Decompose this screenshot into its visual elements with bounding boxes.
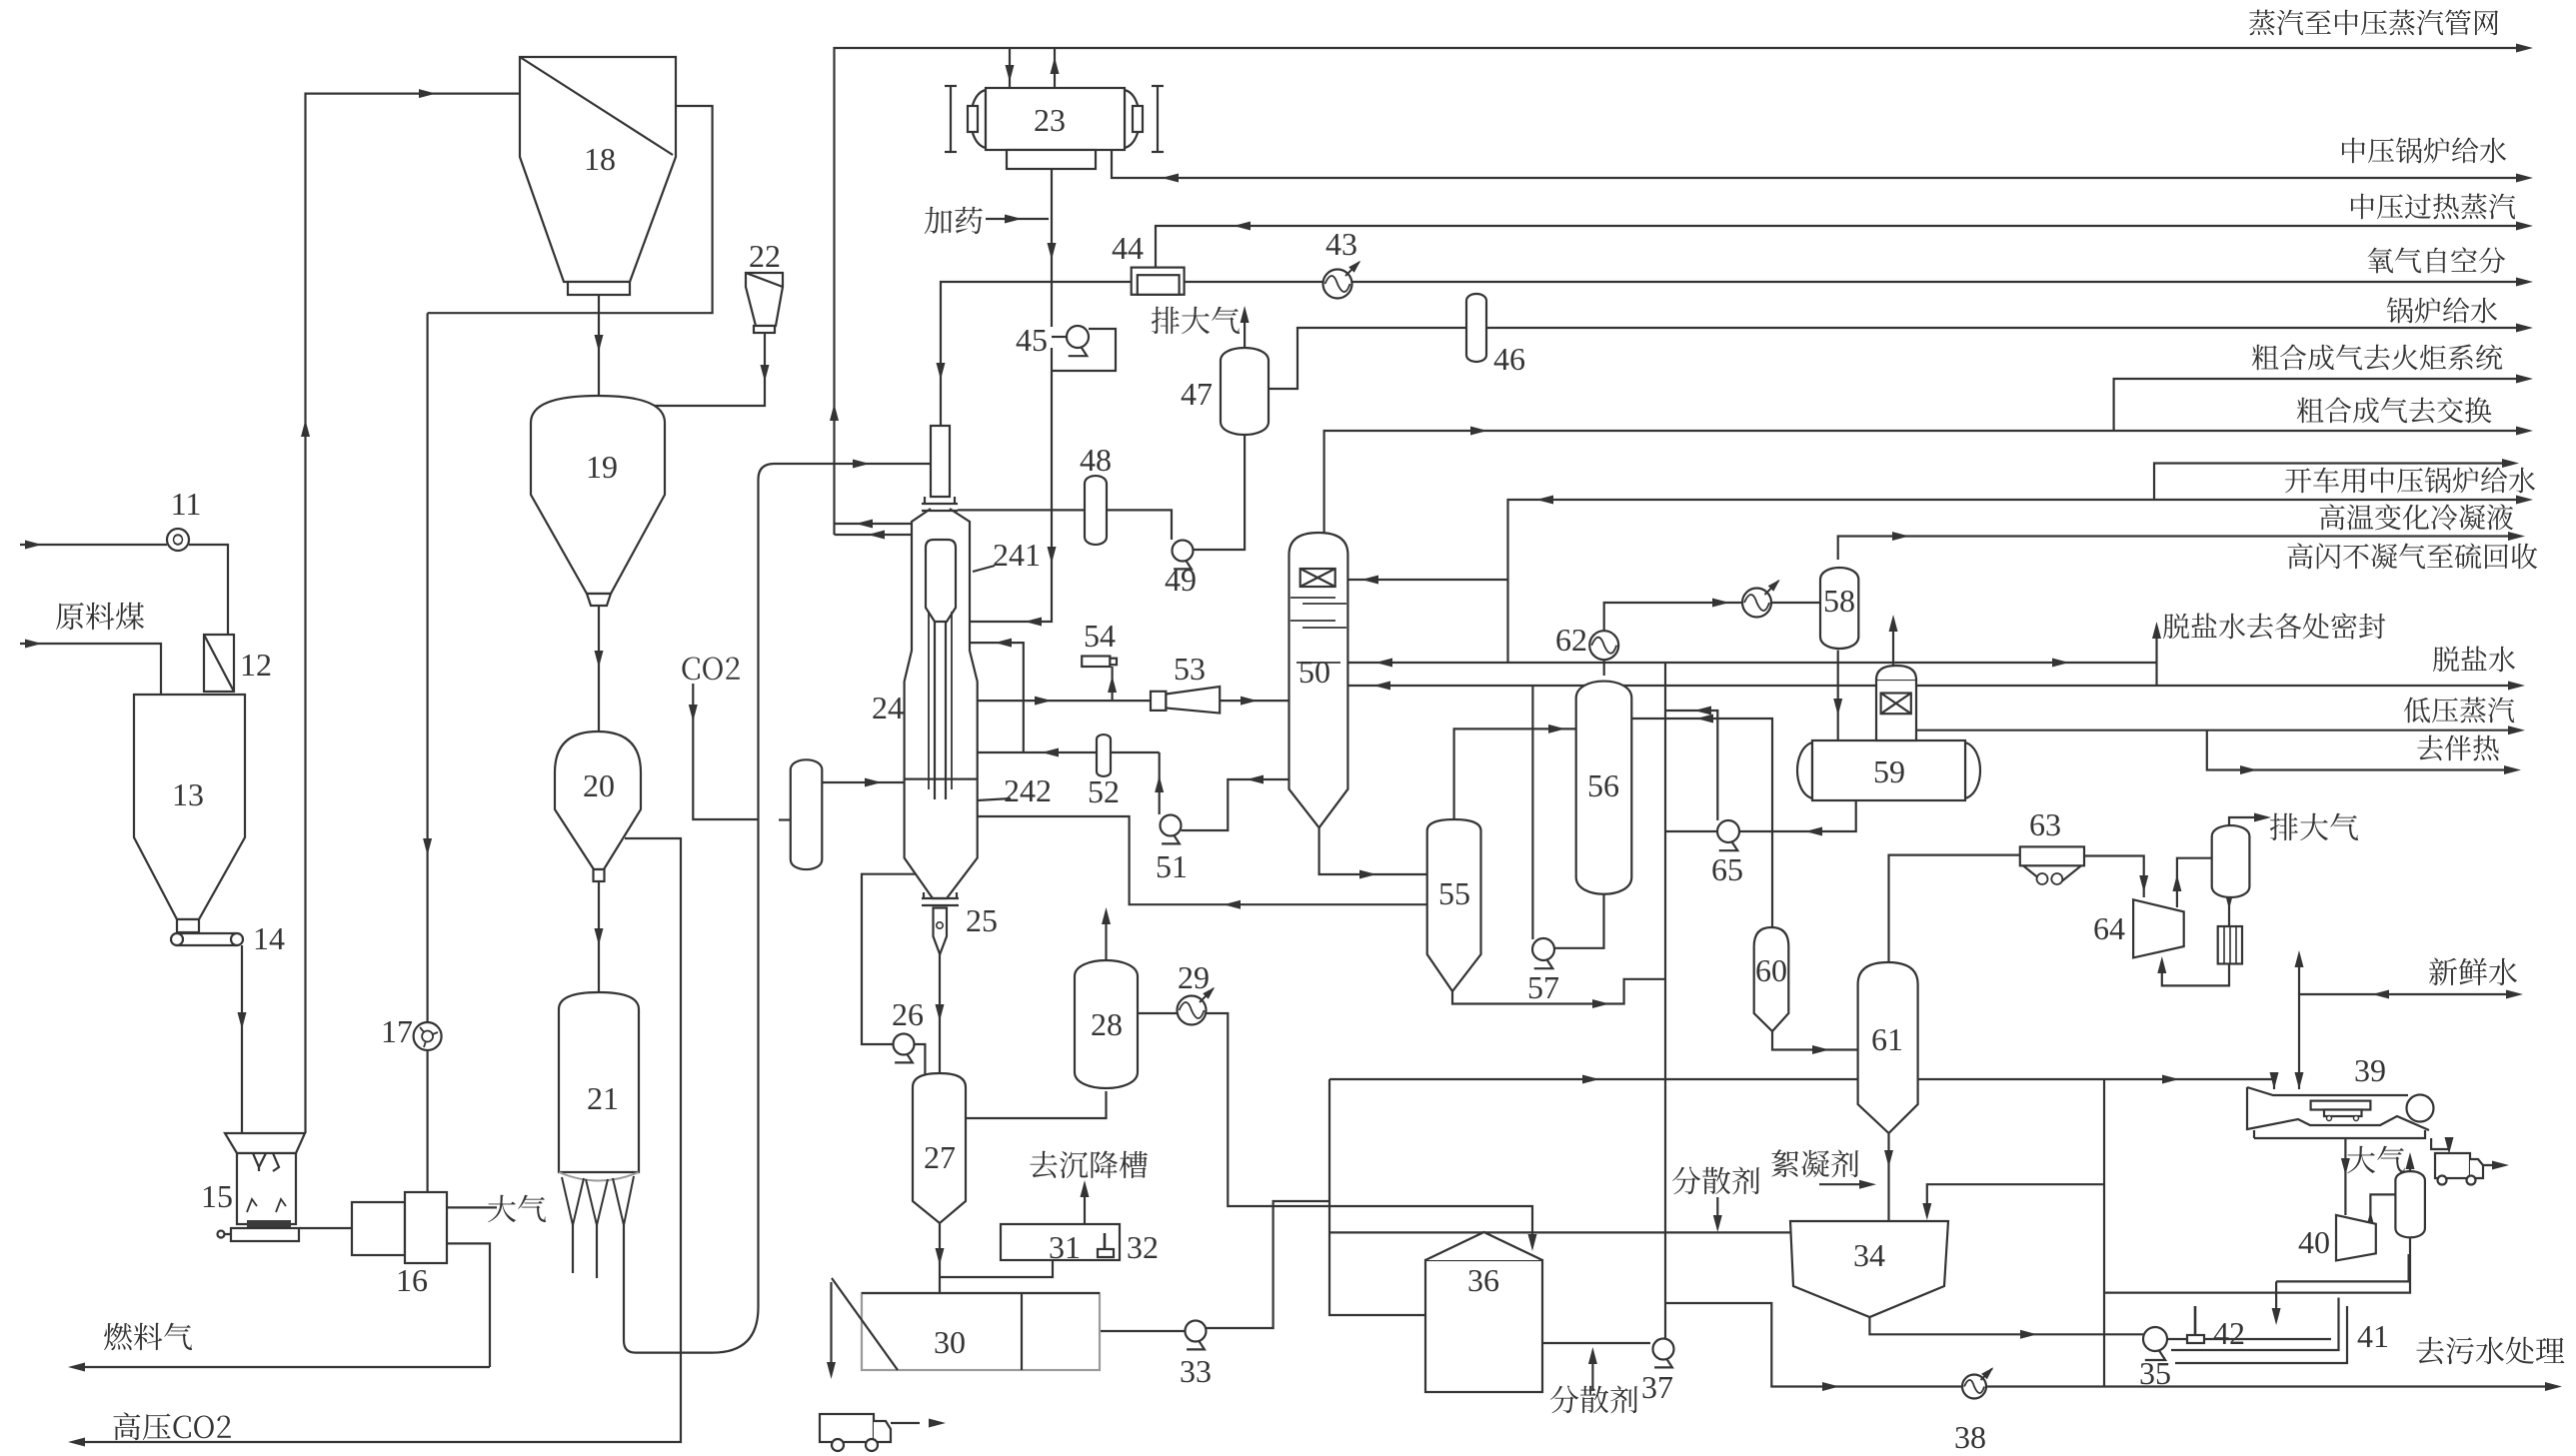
pump 33 bbox=[1187, 1336, 1205, 1350]
feeder 63 bbox=[2020, 846, 2084, 865]
svg-text:58: 58 bbox=[1823, 583, 1855, 619]
svg-text:38: 38 bbox=[1954, 1419, 1986, 1455]
wire startup MP BFW branch y=463 bbox=[2154, 464, 2511, 501]
svg-text:29: 29 bbox=[1178, 959, 1210, 995]
wire feeder 63 to compressor 64 bbox=[2084, 856, 2144, 898]
wire recycle gas riser x=305 from lockhopper 15 up to separator 18 bbox=[306, 94, 521, 1133]
wire vessel 55 top to column 56 bbox=[1454, 728, 1576, 819]
venturi scrubber 53 bbox=[1151, 692, 1166, 711]
wire to settling tank arrow from box 31 bbox=[1084, 1187, 1086, 1224]
cyclone 12 bbox=[204, 635, 234, 692]
svg-text:43: 43 bbox=[1325, 226, 1357, 262]
heater 62 bbox=[1589, 631, 1618, 660]
label 锅炉给水 bbox=[2387, 297, 2413, 323]
svg-text:17: 17 bbox=[381, 1013, 413, 1049]
pump 26 bbox=[895, 1049, 913, 1063]
label 絮凝剂 bbox=[1771, 1149, 1798, 1177]
svg-text:19: 19 bbox=[586, 449, 618, 485]
wire ejector 40 to vent capsule bbox=[2370, 1194, 2395, 1219]
hopper 20 bbox=[555, 731, 641, 869]
wire vessel 28 vent up to blackwater line bbox=[1105, 913, 1107, 960]
wire hopper 19 to hopper 20 bbox=[598, 606, 600, 731]
wire hopper 20 to filter 21 bbox=[598, 881, 600, 992]
label 新鲜水 bbox=[2429, 958, 2457, 986]
label 中压过热蒸汽 bbox=[2351, 194, 2374, 220]
label 蒸汽至中压蒸汽管网 bbox=[2249, 10, 2275, 36]
label 氧气自空分 bbox=[2368, 248, 2394, 274]
wire HP flash offgas to sulfur recovery y=536 from drum 58 bbox=[1838, 537, 2517, 561]
wire to heat-tracing line y=770 branch bbox=[2207, 730, 2513, 770]
wire grey water riser x=1666 from pump 37 bbox=[1664, 663, 1666, 1339]
wire blackwater flash line y=817 from gasifier to vessel 55 bbox=[978, 816, 1427, 904]
slag crusher 25 bbox=[922, 897, 959, 899]
wire gasifier slag drain to pump 26 bbox=[862, 874, 916, 1044]
wire riser from drum 23 to steam header bbox=[1054, 48, 1056, 88]
label 原料煤 bbox=[56, 603, 84, 630]
deaerator drum 59 bbox=[1797, 742, 1980, 798]
wire 18 right offgas to valve line down to filter 21 area bbox=[428, 106, 713, 313]
wire trough 41 to waste pipes bbox=[2171, 1298, 2339, 1351]
svg-text:56: 56 bbox=[1587, 767, 1619, 803]
svg-text:14: 14 bbox=[253, 920, 285, 956]
svg-text:52: 52 bbox=[1088, 773, 1120, 809]
silencer by 64 bbox=[2218, 926, 2242, 964]
wire pump 11 to cyclone 12 bbox=[189, 545, 228, 635]
wire vent capsule to atmosphere arrow bbox=[2409, 1159, 2411, 1179]
column 61 bbox=[1858, 962, 1918, 1133]
wire branch x=2105 down to waste water line bbox=[2103, 1079, 2105, 1387]
label 燃料气 bbox=[104, 1323, 132, 1350]
label 脱盐水 bbox=[2433, 647, 2459, 673]
svg-text:62: 62 bbox=[1555, 622, 1587, 658]
wire demin water drop to pump 57 bbox=[1531, 686, 1533, 939]
wire clarified water into 34 from right bbox=[1927, 1184, 2104, 1215]
svg-text:22: 22 bbox=[749, 238, 781, 274]
label 大气 bbox=[2347, 1146, 2375, 1173]
wire dispersant upper arrow bbox=[1716, 1197, 1718, 1227]
wire demin water to seals riser x=2157 bbox=[2155, 629, 2157, 686]
pump 65 bbox=[1719, 836, 1738, 850]
wire MP boiler feed water line y=178 into drum 23 bbox=[1112, 150, 2525, 178]
wire vessel 60 bottom to column 61 bbox=[1772, 1031, 1858, 1050]
compressor 64 bbox=[2133, 899, 2184, 957]
gasifier 24 neck bbox=[931, 426, 950, 497]
ejector 40 bbox=[2336, 1215, 2376, 1261]
pump 37 bbox=[1654, 1354, 1672, 1368]
svg-text:61: 61 bbox=[1871, 1021, 1903, 1057]
svg-text:41: 41 bbox=[2357, 1318, 2389, 1354]
svg-text:63: 63 bbox=[2029, 806, 2061, 842]
svg-text:36: 36 bbox=[1467, 1262, 1499, 1298]
wire grey water down leg to tank 36 bbox=[1329, 1079, 1425, 1315]
wire raw coal line into bin 13 bbox=[20, 644, 161, 695]
label 去沉降槽 bbox=[1030, 1151, 1057, 1178]
wire vessel 28 bottom to vessel 27 bbox=[966, 1091, 1107, 1118]
wire settler 30 overflow drop to truck bbox=[830, 1282, 832, 1371]
svg-text:30: 30 bbox=[934, 1324, 966, 1360]
svg-text:60: 60 bbox=[1755, 952, 1787, 988]
gasifier 24 inner chamber 241 bbox=[926, 540, 956, 622]
svg-text:49: 49 bbox=[1165, 562, 1197, 598]
heater by 58 bbox=[1742, 589, 1771, 618]
svg-text:26: 26 bbox=[892, 996, 924, 1032]
truck 2 bbox=[2435, 1153, 2470, 1178]
label 排大气 bbox=[1152, 307, 1180, 334]
tank 31 32 bbox=[1001, 1224, 1120, 1260]
wire 16 to atmosphere stub bbox=[448, 1206, 497, 1208]
svg-text:51: 51 bbox=[1156, 848, 1188, 884]
oxygen preheater 44 bbox=[1132, 268, 1185, 295]
wire separator vent to atmosphere right bbox=[2229, 817, 2263, 825]
wire vessel 47 vent to atmosphere bbox=[1244, 313, 1246, 349]
wire dosing line jiayao bbox=[986, 218, 1049, 220]
wire drum 59 bottom to pump 65 bbox=[1739, 800, 1856, 831]
wire LP steam line y=730 bbox=[1916, 729, 2517, 731]
dosing pump 45 bbox=[1069, 342, 1088, 356]
wire drum 23 downcomer x=1052 with dosing tee bbox=[1051, 169, 1053, 327]
wire quench water return into gasifier y=643 bbox=[970, 643, 1024, 752]
label 粗合成气去交换 bbox=[2297, 398, 2324, 424]
leader line 242 bbox=[978, 798, 1011, 800]
vacuum belt filter 39 bbox=[2247, 1087, 2429, 1138]
label 加药 bbox=[925, 207, 953, 234]
vent capsule 40 bbox=[2395, 1171, 2425, 1237]
wire 16 right rect down to fuel gas line bbox=[448, 1243, 490, 1367]
wire vessel 55 bottom line to riser bbox=[1452, 979, 1665, 1004]
wire filter 39 bottom to ejector 40 bbox=[2344, 1138, 2346, 1215]
settler 30 bbox=[862, 1293, 1100, 1370]
label 去伴热 bbox=[2417, 735, 2443, 761]
svg-text:27: 27 bbox=[924, 1139, 956, 1175]
svg-text:20: 20 bbox=[583, 767, 615, 803]
pump 35 bbox=[2145, 1344, 2165, 1360]
wire column 56 bottom to pump 57 bbox=[1554, 894, 1604, 948]
svg-text:11: 11 bbox=[171, 486, 202, 522]
column 56 bbox=[1576, 682, 1632, 894]
label 去污水处理 bbox=[2416, 1337, 2443, 1364]
wire recycled water long line y=1080 to vacuum filter 39 bbox=[1329, 1079, 2274, 1089]
svg-text:46: 46 bbox=[1493, 341, 1525, 377]
label 大气 bbox=[488, 1195, 516, 1222]
svg-text:44: 44 bbox=[1112, 230, 1144, 266]
separator 18 bbox=[520, 57, 676, 282]
svg-text:15: 15 bbox=[201, 1178, 233, 1214]
wire tank 36 outlet to pump 37 with dispersant tee bbox=[1542, 1342, 1650, 1344]
wire deaerator column vent bbox=[1892, 622, 1894, 666]
wire pump 45 bypass box bbox=[1052, 329, 1116, 371]
wire bin 13 outlet to conveyor 14 to lockhopper 15 bbox=[241, 945, 243, 1133]
wire boiler feed water line y=328 through 46 from vessel 47 bbox=[1269, 328, 2525, 389]
svg-text:35: 35 bbox=[2139, 1355, 2171, 1391]
wire 15 to 16 bbox=[299, 1227, 352, 1229]
wire flocculant dosing arrow bbox=[1819, 1183, 1868, 1185]
label 开车用中压锅炉给水 bbox=[2285, 468, 2311, 493]
svg-text:12: 12 bbox=[240, 647, 272, 683]
wire filter 39 right discharge to truck bbox=[2431, 1138, 2449, 1149]
coal bin 13 bbox=[134, 695, 245, 919]
svg-text:65: 65 bbox=[1711, 851, 1743, 887]
feed capsule left of gasifier bbox=[791, 759, 823, 869]
deaerator column on 59 bbox=[1876, 680, 1916, 740]
svg-text:57: 57 bbox=[1527, 969, 1559, 1005]
wire line y=1233 into thickener 34 bbox=[1329, 1231, 1790, 1233]
filter 46 bbox=[1466, 294, 1486, 362]
wire drop into drum 23 at x=1010 bbox=[1009, 48, 1011, 88]
agitator 42 bbox=[2194, 1306, 2197, 1335]
svg-text:37: 37 bbox=[1641, 1369, 1673, 1405]
pump 51 bbox=[1162, 830, 1180, 844]
wire pump 49 discharge to vessel 47 bbox=[1194, 435, 1246, 550]
label 高温变化冷凝液 bbox=[2320, 504, 2345, 530]
wire vent line x=427 down through blower 17 to 16 bbox=[427, 313, 429, 1025]
wire slag lockhopper 25 to vessel 27 bbox=[939, 954, 941, 1075]
wire column 61 bottoms to thickener 34 bbox=[1887, 1133, 1889, 1221]
wire HT shift condensate line y=500 into column 50 bbox=[1508, 500, 2526, 663]
wire heater circuit 62 to 58 bbox=[1604, 603, 1742, 631]
wire blackwater line y=753 through filter 52 from pump 51 bbox=[978, 751, 1160, 753]
steam drum 23 bbox=[971, 90, 1140, 148]
svg-text:40: 40 bbox=[2298, 1224, 2330, 1260]
wire coal feed gas line into pump 11 bbox=[20, 544, 167, 546]
svg-text:18: 18 bbox=[584, 141, 616, 177]
wire nozzle into 50 upper at y=580 bbox=[1347, 579, 1507, 581]
wire HP CO2 line y=1443 riser to vessel 20 bbox=[75, 838, 681, 1442]
svg-text:242: 242 bbox=[1004, 772, 1052, 808]
svg-text:32: 32 bbox=[1127, 1229, 1159, 1265]
wire steam-to-MP-steam-grid main header y=48 bbox=[835, 48, 2526, 535]
wire separator bottom through silencer back to compressor 64 bbox=[2228, 889, 2230, 926]
blower 17 bbox=[414, 1022, 442, 1050]
wire oxygen from ASU line y=282 through 44 and 43 to gasifier neck bbox=[941, 282, 2525, 426]
label 分散剂 bbox=[1672, 1166, 1700, 1194]
wire pump 26 discharge into vessel 27 bbox=[915, 1044, 926, 1079]
wire tank 31 drain into 30 bbox=[940, 1260, 1053, 1277]
svg-text:16: 16 bbox=[396, 1262, 428, 1298]
svg-text:47: 47 bbox=[1181, 376, 1213, 412]
wire fresh water line y=995 bbox=[2299, 994, 2517, 1089]
leader line 241 bbox=[973, 566, 995, 572]
wire filter 21 discharge legs bbox=[572, 1225, 574, 1273]
wire drum 58 bottom into deaerator 59 bbox=[1837, 651, 1839, 741]
svg-text:64: 64 bbox=[2093, 910, 2125, 946]
wire fuel gas line y=1368 bbox=[75, 1366, 490, 1368]
wire pump 51 suction from column 50 bottom bbox=[1182, 779, 1289, 830]
label 排大气 bbox=[2270, 813, 2298, 840]
wire cyclone 22 outlet down to hopper 19 bbox=[638, 333, 765, 406]
gasifier 24 outer shell bbox=[905, 509, 978, 898]
wire compressor 64 discharge to separator bbox=[2177, 858, 2212, 907]
pump 57 bbox=[1534, 954, 1553, 968]
vessel 27 bbox=[913, 1073, 966, 1223]
wire separator 18 bottom to hopper 19 bbox=[598, 295, 600, 398]
svg-text:13: 13 bbox=[172, 776, 204, 812]
wire thickener 34 underflow to pump 35 to trough 41 bbox=[1869, 1317, 2143, 1334]
svg-text:53: 53 bbox=[1174, 651, 1206, 687]
svg-text:48: 48 bbox=[1080, 442, 1112, 478]
cooler 38 bbox=[1962, 1375, 1986, 1399]
label 低压蒸汽 bbox=[2404, 698, 2430, 724]
label 高压CO2 bbox=[113, 1412, 140, 1440]
wire settler 30 to pump 33 and up to grey water header bbox=[1100, 1330, 1186, 1332]
wire column 56 overhead to vessel 60 bbox=[1631, 719, 1772, 927]
svg-text:241: 241 bbox=[993, 537, 1041, 573]
gasifier 24 quench water level 242 bbox=[905, 777, 978, 779]
cyclone 22 bbox=[746, 273, 783, 326]
svg-text:25: 25 bbox=[966, 902, 998, 938]
label 脱盐水去各处密封 bbox=[2163, 614, 2189, 640]
oxygen heater 43 bbox=[1323, 270, 1352, 299]
cooler 29 bbox=[1178, 996, 1207, 1025]
nozzle 54 bbox=[1082, 657, 1110, 668]
label 粗合成气去火炬系统 bbox=[2252, 345, 2279, 371]
vessel 55 bbox=[1427, 819, 1481, 991]
wire raw syngas to shift line y=431 from column 50 top bbox=[1324, 431, 2525, 533]
svg-text:54: 54 bbox=[1084, 618, 1116, 654]
label 中压锅炉给水 bbox=[2342, 138, 2365, 164]
wire truck2 away arrow bbox=[2483, 1164, 2501, 1166]
vessel 60 bbox=[1754, 927, 1789, 1031]
wire MP superheated steam line y=226 to unit 44 bbox=[1156, 226, 2525, 268]
svg-text:33: 33 bbox=[1180, 1353, 1212, 1389]
flash vessel 47 bbox=[1221, 348, 1269, 435]
bag filter 21 bbox=[559, 992, 639, 1172]
wire demin water line y=686 into column 50 bbox=[1347, 685, 2517, 687]
svg-text:24: 24 bbox=[872, 690, 904, 726]
svg-text:34: 34 bbox=[1853, 1237, 1885, 1273]
svg-text:45: 45 bbox=[1016, 322, 1048, 358]
separator capsule by 64 bbox=[2212, 825, 2250, 897]
svg-text:21: 21 bbox=[587, 1080, 619, 1116]
hopper 19 bbox=[531, 396, 665, 594]
wire nozzle 54 standpipe bbox=[1111, 667, 1113, 701]
label CO2 bbox=[682, 657, 700, 680]
wire flange line y=510 from gasifier neck through filter 48 to pump 49 bbox=[958, 509, 1085, 511]
wire raw syngas to flare system branch y=379 bbox=[2114, 379, 2525, 431]
svg-text:31: 31 bbox=[1049, 1229, 1081, 1265]
tank 36 bbox=[1425, 1260, 1542, 1392]
wire feed capsule to gasifier 24 left wall bbox=[822, 781, 904, 783]
wire steam offtake nozzles from gasifier 24 to riser x=834 bbox=[835, 523, 913, 525]
wire syngas line y=701 from gasifier through venturi 53 to column 50 bbox=[978, 700, 1151, 702]
wire CO2 injection line bbox=[693, 684, 757, 819]
svg-text:23: 23 bbox=[1034, 102, 1066, 138]
pump 11 coal feeder bbox=[167, 529, 189, 551]
filter 48 bbox=[1085, 476, 1107, 545]
wire column 61 overhead to feeder 63 bbox=[1889, 855, 2020, 962]
conveyor 14 bbox=[177, 932, 237, 934]
wire column 50 bottoms to vessel 55 bbox=[1319, 827, 1427, 874]
label 高闪不凝气至硫回收 bbox=[2288, 543, 2313, 569]
flash drum 58 bbox=[1820, 568, 1858, 649]
lockhopper burner 15 bbox=[225, 1133, 305, 1153]
label 分散剂 bbox=[1550, 1385, 1578, 1413]
filter 52 bbox=[1097, 734, 1111, 776]
wash column 50 bbox=[1289, 533, 1348, 827]
wire riser to 59 area y=711 bbox=[1665, 711, 1717, 820]
wire to waste water treatment line y=1387 bbox=[1665, 1303, 2554, 1387]
svg-text:39: 39 bbox=[2354, 1052, 2386, 1088]
truck 1 bbox=[820, 1414, 874, 1442]
wire vessel 28 to cooler 29 to tank 36 bbox=[1138, 1012, 1178, 1014]
wire vessel 27 bottom to settler 30 bbox=[939, 1223, 941, 1293]
thickener 34 bbox=[1790, 1221, 1948, 1317]
svg-text:59: 59 bbox=[1873, 753, 1905, 789]
svg-text:55: 55 bbox=[1438, 875, 1470, 911]
vessel 28 bbox=[1075, 960, 1138, 1088]
svg-text:28: 28 bbox=[1091, 1006, 1123, 1042]
wire dip leg U-seal from 21 to gasifier riser bbox=[624, 464, 931, 1353]
wire nozzle into 50 lower / seal water header y=663 bbox=[1347, 662, 2156, 664]
pump 49 bbox=[1174, 556, 1192, 570]
svg-text:42: 42 bbox=[2213, 1315, 2245, 1351]
incinerator 16 bbox=[352, 1202, 405, 1255]
wire vent capsule drain to waste water bbox=[2104, 1228, 2410, 1292]
svg-text:50: 50 bbox=[1298, 654, 1330, 690]
